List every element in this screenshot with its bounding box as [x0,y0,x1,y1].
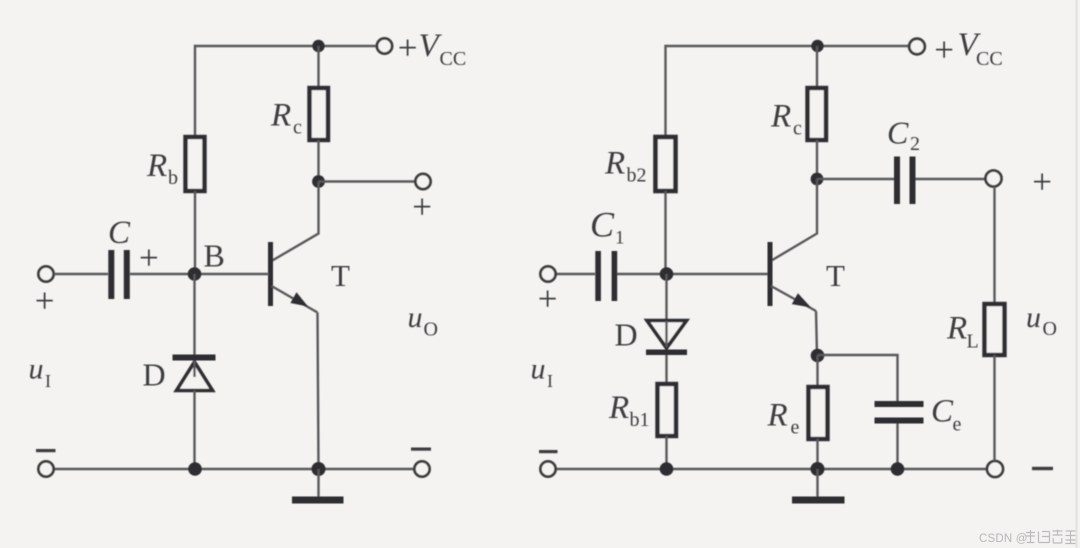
node top junction left [312,40,324,52]
svg-text:+: + [538,280,558,319]
svg-text:+: + [35,282,55,321]
svg-text:u: u [531,353,546,386]
wire bottom rail right [556,468,987,470]
wire emitter node to Re [816,356,818,388]
wire collector node to capacitor C2 [817,178,894,180]
capacitor C1 plates [595,251,601,301]
svg-text:D: D [615,317,638,353]
ground left bar [292,497,344,504]
resistor Re [809,387,828,439]
svg-text:R: R [270,98,291,134]
ground left stem [317,469,319,497]
wire input to capacitor C [54,273,108,275]
svg-text:R: R [767,398,788,434]
terminal output+ left [415,174,430,189]
svg-text:O: O [1043,318,1057,340]
watermark chinese glyphs [1026,530,1076,544]
node collector junction right [811,173,824,186]
label C2 [887,115,920,156]
capacitor C2 plates [894,157,900,205]
wire Re to bottom rail [816,439,818,469]
node emitter junction right [811,349,825,363]
terminal bottom-right right circuit [987,461,1003,477]
label +Vcc right [934,27,1002,70]
svg-text:e: e [791,417,800,439]
terminal input right [540,266,555,281]
svg-text:+: + [1032,163,1052,202]
capacitor C plates [108,250,114,299]
svg-text:b: b [168,167,178,189]
svg-text:C: C [887,115,909,151]
svg-text:C: C [590,205,615,245]
svg-text:+: + [398,28,418,67]
wire Rb1 to bottom rail [665,436,667,469]
svg-text:c: c [793,118,802,140]
svg-text:c: c [293,117,302,139]
svg-text:R: R [770,99,791,135]
svg-text:T: T [826,258,845,293]
svg-text:u: u [408,301,423,334]
label Re [767,398,800,439]
label Rb1 [608,390,650,431]
transistor T2 base bar [768,242,773,306]
node bottom junction emitter column [312,462,326,476]
wire base right [556,273,595,275]
wire Rc right bottom to collector node [816,140,818,179]
svg-text:u: u [29,353,44,386]
label C1 [590,205,625,249]
wire Rb bottom to node B [194,191,196,274]
svg-text:R: R [146,148,167,184]
label Rb [146,148,178,189]
svg-text:R: R [946,311,967,347]
wire Rc right top [816,46,818,88]
svg-text:R: R [608,390,629,426]
svg-text:T: T [331,258,350,293]
wire C1 to base node right [617,273,769,275]
ground right bar [792,497,845,504]
node B junction [188,267,202,281]
svg-text:R: R [604,146,625,182]
svg-text:L: L [967,331,979,353]
node bottom junction Rb1 column [660,462,674,476]
label Rc [270,98,302,139]
svg-text:I: I [547,371,553,391]
terminal +Vcc left [377,38,392,53]
resistor Rc [310,88,329,140]
wire emitter to emitter node right [816,311,817,356]
wire collector lead [272,182,319,262]
diode D cathode bar [173,355,216,361]
wire stub inside diode D2 [665,321,667,347]
wire collector lead right [772,179,818,261]
label uI left [29,353,52,392]
wire Rc top [317,46,319,88]
node bottom junction B column [188,462,202,476]
label minus bottom-left [36,449,56,452]
wire RL to bottom terminal [993,355,995,461]
transistor T2 emitter lead [771,286,816,311]
ground right stem [816,469,818,497]
svg-text:2: 2 [910,133,920,155]
wire C2 to output terminal right [916,178,986,180]
terminal output+ right [986,171,1002,187]
wire Rc bottom to collector node [317,140,319,182]
svg-text:I: I [45,371,51,391]
svg-text:+: + [412,188,432,227]
capacitor Ce plates [875,401,924,407]
resistor Rb2 [656,137,676,191]
terminal +Vcc right [909,39,925,55]
svg-text:C: C [108,215,131,251]
label Ce [931,394,962,436]
label uI right [531,353,554,392]
svg-text:O: O [424,319,438,341]
wire diode to Rb1 [665,355,667,384]
wire base node down to diode right [665,274,667,320]
wire Rb2 bottom to base node [664,191,666,274]
node base junction right [660,267,674,281]
svg-text:CC: CC [976,48,1003,70]
resistor Rb [186,137,205,191]
svg-text:b2: b2 [627,165,647,187]
svg-text:CC: CC [440,48,467,70]
label +Vcc left [398,28,466,70]
transistor T1 emitter lead [272,286,318,313]
label Rc right [770,99,802,140]
terminal bottom-left left circuit [38,461,53,476]
terminal bottom-right left circuit [414,461,429,476]
wire diode to bottom rail [193,391,195,470]
wire top rail right [666,45,910,47]
node collector junction left [312,175,325,188]
wire RL top [993,187,995,305]
resistor RL [985,304,1005,355]
scan edge artifact [1076,0,1078,548]
svg-text:D: D [143,357,166,393]
transistor T2 emitter arrow [792,293,811,307]
diode D2 triangle [647,321,687,349]
svg-text:b1: b1 [630,409,650,431]
transistor T1 emitter arrow [290,292,308,306]
wire top rail left [195,45,377,47]
wire Rb2 top [664,45,666,137]
wire bottom rail left [54,468,414,470]
resistor Rc right [808,88,827,140]
label minus bottom-right right circuit [1032,467,1053,470]
node bottom junction Re column [811,462,825,476]
svg-text:e: e [953,414,962,436]
wire Ce to bottom rail [896,424,898,470]
diode D triangle [177,362,213,391]
label RL [946,311,979,353]
svg-text:+: + [934,30,954,69]
svg-text:u: u [1026,301,1041,334]
wire emitter down left [318,313,319,470]
wire node B down to diode [193,274,195,355]
diode D2 cathode bar [646,350,687,356]
label uO left [408,301,438,341]
wire Rb top [194,45,196,137]
terminal input left [38,266,53,281]
svg-text:B: B [204,238,225,274]
resistor Rb1 [658,384,677,436]
wire collector node to output terminal [319,180,416,182]
wire emitter node to Ce branch [818,355,898,401]
wire stub inside diode D [193,361,195,377]
transistor T1 base bar [268,242,273,306]
svg-text:C: C [931,394,954,430]
terminal bottom-left right circuit [540,461,555,476]
svg-text:1: 1 [615,228,625,249]
svg-text:+: + [139,239,159,278]
node bottom junction Ce column [891,462,905,476]
wire capacitor C to base [130,273,269,275]
label uO right [1026,301,1057,340]
label Rb2 [604,146,647,187]
svg-text:CSDN @: CSDN @ [979,533,1028,545]
label minus bottom-left right circuit [539,450,558,453]
node top junction right [811,40,823,52]
label minus bottom-right left circuit [411,448,431,451]
